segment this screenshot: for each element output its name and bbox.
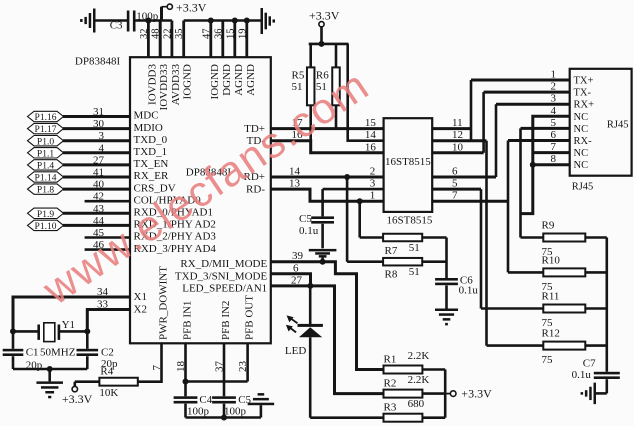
- svg-text:27: 27: [93, 154, 105, 166]
- wire chip pin 41: [63, 176, 130, 179]
- wire transformer pin12 to R12 drop: [432, 139, 486, 142]
- svg-text:14: 14: [289, 166, 301, 178]
- junction dot pin19 rail: [244, 18, 250, 24]
- svg-text:+3.3V: +3.3V: [309, 9, 340, 23]
- ground below crystal: [36, 369, 63, 398]
- wire RJ45 pin1 stub: [471, 79, 570, 82]
- wire top pin 15: [233, 21, 236, 58]
- svg-text:47: 47: [201, 29, 212, 40]
- power +3.3V (R4): [62, 386, 93, 406]
- svg-text:6: 6: [293, 262, 299, 274]
- crystal Y1: [13, 323, 87, 342]
- svg-text:+3.3V: +3.3V: [62, 392, 93, 406]
- wire RJ45 pin3 vertical link: [495, 104, 498, 177]
- svg-text:2: 2: [551, 81, 557, 93]
- resistor R4: [75, 378, 138, 387]
- svg-text:2: 2: [370, 166, 376, 178]
- wire chip pin 30: [63, 127, 130, 130]
- svg-text:RX+: RX+: [574, 100, 595, 111]
- svg-text:16ST8515: 16ST8515: [385, 156, 431, 168]
- wire chip pin 46: [85, 248, 130, 251]
- node port flag P1.8: [28, 184, 64, 196]
- svg-text:39: 39: [292, 250, 304, 262]
- junction dot pin15 rail: [232, 18, 238, 24]
- junction dot crystal right: [84, 328, 90, 334]
- junction dot pin18 row: [183, 379, 189, 385]
- node port flag P1.10: [28, 220, 64, 232]
- junction dot crystal left: [10, 328, 16, 334]
- svg-text:680: 680: [408, 398, 425, 410]
- svg-text:51: 51: [409, 242, 420, 254]
- svg-text:16: 16: [365, 141, 377, 153]
- svg-text:C2: C2: [101, 347, 114, 359]
- svg-text:100p: 100p: [224, 406, 247, 418]
- svg-text:1: 1: [370, 190, 376, 202]
- wire 12 drop to R12: [485, 141, 488, 346]
- wire pin27 LED_SPEED/AN1 net: [271, 286, 384, 394]
- svg-text:R7: R7: [385, 245, 398, 257]
- svg-text:5: 5: [551, 117, 557, 129]
- resistor R2: [384, 390, 446, 398]
- svg-text:IOVDD3: IOVDD3: [146, 64, 158, 105]
- svg-text:RJ45: RJ45: [607, 120, 629, 131]
- svg-text:R9: R9: [542, 220, 555, 232]
- svg-text:TXD_0: TXD_0: [134, 134, 168, 146]
- svg-text:LED_SPEED/AN1: LED_SPEED/AN1: [182, 282, 267, 294]
- wire transformer pin3 stub: [323, 188, 384, 191]
- ground GND top-right (sideways): [261, 8, 276, 34]
- capacitor C4: [174, 396, 198, 417]
- resistor R10: [508, 268, 607, 276]
- resistor R9: [521, 234, 607, 242]
- node port flag P1.17: [28, 123, 64, 135]
- svg-text:11: 11: [452, 117, 463, 129]
- wire 5 drop to R11: [480, 189, 483, 308]
- junction dot pin6/pin27/LED: [307, 283, 313, 289]
- svg-text:RJ45: RJ45: [572, 182, 594, 193]
- svg-text:32: 32: [139, 29, 150, 40]
- node port flag P1.1: [28, 148, 64, 160]
- wire pin7 PWR_DOWINT to R4: [138, 343, 162, 381]
- svg-text:10K: 10K: [99, 387, 118, 399]
- capacitor C5 (PFB): [212, 396, 236, 417]
- wire GND rail right segment: [184, 19, 261, 22]
- svg-text:AGND: AGND: [233, 64, 245, 96]
- wire C4/C5 ground bus: [186, 416, 261, 419]
- power +3.3V (R5/R6 top): [309, 9, 340, 27]
- svg-text:NC: NC: [574, 124, 589, 135]
- svg-text:P1.16: P1.16: [35, 113, 57, 123]
- svg-text:0.1u: 0.1u: [459, 285, 479, 297]
- resistor R8: [347, 258, 446, 266]
- svg-text:44: 44: [93, 215, 105, 227]
- junction dot RJ45 pin8 drop: [530, 162, 536, 168]
- svg-text:AGND: AGND: [245, 64, 257, 96]
- wire TD+ net (pin17 to transformer pin15): [271, 127, 384, 130]
- svg-text:R11: R11: [542, 291, 560, 303]
- wire center tap +3.3V to transformer pin14: [348, 44, 384, 141]
- svg-text:P1.8: P1.8: [37, 186, 54, 196]
- svg-text:51: 51: [292, 81, 303, 93]
- svg-text:R10: R10: [542, 254, 561, 266]
- svg-text:TX-: TX-: [574, 88, 592, 99]
- ground below C5: [309, 249, 337, 262]
- svg-text:PFB IN1: PFB IN1: [182, 301, 194, 340]
- wire chip pin 40: [63, 188, 130, 191]
- svg-text:C4: C4: [199, 394, 212, 406]
- svg-text:10: 10: [452, 141, 464, 153]
- wire transformer pin6 to RJ45 pin3 (RX+): [432, 176, 496, 179]
- wire RD+ net (pin14 to transformer pin2): [271, 176, 384, 179]
- svg-text:19: 19: [237, 29, 248, 40]
- wire chip pin 3: [63, 139, 130, 142]
- capacitor C5 (RX center tap): [311, 189, 334, 248]
- svg-text:15: 15: [365, 117, 377, 129]
- svg-text:RX_D/MII_MODE: RX_D/MII_MODE: [180, 258, 267, 270]
- svg-text:31: 31: [93, 106, 104, 118]
- wire R9-R12 common vertical to C7: [605, 238, 608, 372]
- wire pin37 PFBIN2: [223, 343, 226, 396]
- svg-text:DP83848I: DP83848I: [75, 56, 121, 68]
- svg-text:PWR_DOWINT: PWR_DOWINT: [158, 266, 170, 340]
- wire top pin 22: [170, 21, 173, 58]
- wire PFB junction row: [186, 380, 248, 383]
- wire TD- net (pin16 with jog to transformer pin16): [271, 141, 384, 153]
- capacitor C7: [594, 372, 620, 394]
- wire top pin 36: [221, 21, 224, 58]
- svg-text:48: 48: [151, 29, 162, 40]
- svg-text:12: 12: [452, 129, 463, 141]
- wire +3.3V stem to bar: [320, 27, 323, 44]
- svg-text:P1.14: P1.14: [35, 174, 57, 184]
- wire RJ45 pin2 stub: [484, 91, 570, 94]
- resistor R5: [307, 44, 315, 141]
- svg-text:6: 6: [551, 129, 557, 141]
- svg-text:13: 13: [289, 178, 301, 190]
- svg-text:0.1u: 0.1u: [299, 225, 319, 237]
- svg-text:NC: NC: [574, 160, 589, 171]
- wire chip pin 31: [63, 115, 130, 118]
- ground right of C7 (sideways): [581, 383, 596, 405]
- ground GND top-left (sideways): [80, 9, 95, 33]
- wire chip pin 43: [63, 212, 130, 215]
- svg-text:P1.1: P1.1: [37, 149, 54, 159]
- LED D1: [286, 286, 323, 418]
- junction dot C5 bus: [221, 415, 227, 421]
- svg-text:TXD_3/SNI_MODE: TXD_3/SNI_MODE: [175, 270, 268, 282]
- node port flag P1.0: [28, 136, 64, 148]
- wire transformer pin10 to RJ45 pin2 (TX-): [432, 151, 483, 154]
- svg-text:4: 4: [551, 105, 557, 117]
- wire chip pin 45: [85, 236, 130, 239]
- wire R1-R3 common vertical: [444, 370, 447, 418]
- svg-text:+3.3V: +3.3V: [176, 1, 207, 15]
- svg-text:3: 3: [551, 93, 557, 105]
- svg-text:PFB OUT: PFB OUT: [244, 295, 256, 340]
- junction dot RD+ / R8: [344, 174, 350, 180]
- resistor R6: [332, 44, 340, 129]
- svg-text:LED: LED: [285, 345, 306, 357]
- wire transformer pin5 to R11 drop: [432, 188, 481, 191]
- svg-text:RX-: RX-: [574, 136, 593, 147]
- svg-text:6: 6: [452, 166, 458, 178]
- svg-text:8: 8: [551, 153, 557, 165]
- svg-text:15: 15: [225, 29, 236, 40]
- power +3.3V tap (top-left): [162, 1, 207, 21]
- svg-text:2.2K: 2.2K: [408, 374, 430, 386]
- svg-text:IOGND: IOGND: [182, 64, 194, 99]
- svg-text:R3: R3: [384, 402, 397, 414]
- ground below C6: [435, 309, 458, 326]
- wire RJ45 pin7 stub: [533, 151, 570, 154]
- wire transformer pin7 to RJ45 pin6 (RX-): [432, 200, 508, 203]
- svg-text:1: 1: [551, 69, 557, 81]
- svg-text:MDIO: MDIO: [134, 122, 163, 134]
- wire RJ45 pin8 stub: [532, 163, 570, 166]
- wire VDD rail left segment: [136, 19, 172, 22]
- svg-text:C3: C3: [110, 20, 123, 32]
- svg-text:NC: NC: [574, 148, 589, 159]
- svg-text:22: 22: [162, 29, 173, 40]
- svg-text:3: 3: [370, 178, 376, 190]
- wire X2 net (pin33): [87, 310, 130, 332]
- junction dot RD- / R7: [357, 198, 363, 204]
- wire RD- net (pin13 jog to transformer pin1): [271, 189, 384, 201]
- svg-text:14: 14: [365, 129, 377, 141]
- svg-text:33: 33: [97, 299, 109, 311]
- capacitor C6: [435, 278, 458, 309]
- svg-text:R4: R4: [100, 366, 113, 378]
- IC U1 DP83848I ethernet PHY chip body: [130, 57, 271, 343]
- svg-text:TX_EN: TX_EN: [134, 158, 169, 170]
- resistor R7: [360, 234, 447, 242]
- svg-text:C7: C7: [583, 358, 596, 370]
- svg-text:DGND: DGND: [221, 64, 233, 96]
- wire top pin 47: [209, 21, 212, 58]
- power +3.3V (R1-R3): [445, 387, 492, 401]
- wire +3.3V bar: [309, 43, 349, 46]
- svg-text:7: 7: [452, 190, 458, 202]
- junction dot +3.3V bar: [319, 41, 325, 47]
- junction dot pin47 rail: [208, 18, 214, 24]
- svg-text:Y1: Y1: [62, 319, 75, 331]
- svg-text:R5: R5: [292, 70, 305, 82]
- junction dot C5 ground / pin39 wire: [320, 259, 326, 265]
- wire pin39 RX_D/MII_MODE net: [271, 262, 384, 370]
- svg-text:23: 23: [237, 361, 249, 373]
- wire RJ45 pin6 stub: [508, 139, 570, 142]
- svg-text:7: 7: [551, 141, 557, 153]
- wire transformer pin11 to RJ45 pin1 (TX+): [432, 127, 471, 130]
- svg-text:X2: X2: [134, 304, 147, 316]
- svg-text:50MHZ: 50MHZ: [40, 347, 76, 359]
- wire chip pin 44: [63, 224, 130, 227]
- svg-text:P1.17: P1.17: [35, 125, 57, 135]
- svg-text:75: 75: [542, 354, 554, 366]
- svg-text:37: 37: [214, 361, 226, 373]
- svg-text:P1.10: P1.10: [35, 222, 57, 232]
- svg-text:+3.3V: +3.3V: [461, 387, 492, 401]
- svg-text:RX_ER: RX_ER: [134, 170, 170, 182]
- svg-text:40: 40: [93, 179, 105, 191]
- wire RJ45 pin5 stub and drop to R9: [521, 127, 570, 130]
- svg-text:AVDD33: AVDD33: [170, 64, 182, 106]
- wire top pin 35: [182, 21, 185, 58]
- svg-text:R2: R2: [384, 378, 397, 390]
- svg-text:18: 18: [175, 361, 187, 373]
- capacitor C3: [127, 11, 136, 32]
- svg-text:100p: 100p: [187, 406, 210, 418]
- wire pin18 PFBIN1: [184, 343, 187, 396]
- capacitor C2: [77, 331, 99, 369]
- svg-text:7: 7: [151, 365, 163, 371]
- wire RJ45 pin6 vertical link and drop to R10: [507, 141, 510, 273]
- svg-text:2.2K: 2.2K: [408, 350, 430, 362]
- svg-text:4: 4: [99, 142, 105, 154]
- capacitor C1: [3, 331, 24, 369]
- node port flag P1.9: [28, 208, 64, 220]
- wire R7/R8 common to C6: [445, 238, 448, 279]
- watermark www.elecfans.com: [34, 61, 378, 315]
- svg-text:51: 51: [409, 266, 420, 278]
- svg-text:41: 41: [93, 167, 104, 179]
- svg-text:P1.9: P1.9: [37, 210, 54, 220]
- wire RJ45 pin2 vertical link: [482, 92, 485, 153]
- node port flag P1.4: [28, 160, 64, 172]
- wire top pin 48: [159, 21, 162, 58]
- svg-text:0.1u: 0.1u: [572, 369, 592, 381]
- svg-text:TX+: TX+: [574, 76, 594, 87]
- wire chip pin 4: [63, 151, 130, 154]
- svg-text:35: 35: [174, 29, 185, 40]
- wire top pin 32: [147, 21, 150, 58]
- svg-text:43: 43: [93, 203, 105, 215]
- wire RJ45 pin1 vertical link: [470, 80, 473, 141]
- resistor R1: [384, 366, 446, 374]
- svg-text:IOVDD33: IOVDD33: [158, 64, 170, 111]
- svg-text:R1: R1: [384, 354, 397, 366]
- junction dot pin32 rail: [145, 18, 151, 24]
- connector J1 RJ45 body: [570, 69, 632, 176]
- svg-text:30: 30: [93, 118, 105, 130]
- resistor R11: [481, 305, 607, 313]
- svg-text:P1.0: P1.0: [37, 137, 54, 147]
- resistor R12: [487, 342, 607, 350]
- svg-text:27: 27: [291, 274, 303, 286]
- node port flag P1.14: [28, 172, 64, 184]
- svg-text:R8: R8: [385, 269, 398, 281]
- wire chip pin 42: [85, 200, 130, 203]
- wire pin6 TXD_3/SNI_MODE net: [271, 274, 311, 286]
- svg-text:TXD_1: TXD_1: [134, 146, 168, 158]
- svg-text:16ST8515: 16ST8515: [387, 215, 433, 227]
- svg-text:P1.4: P1.4: [37, 162, 54, 172]
- wire RJ45 pin4 stub and drop: [521, 116, 570, 213]
- wire pin23 PFBOUT: [246, 343, 249, 381]
- wire top pin 19: [245, 21, 248, 58]
- transformer T1 16ST8515 body: [384, 118, 433, 212]
- wire ground to C3: [96, 19, 128, 22]
- ground above bus (inverted): [248, 393, 275, 417]
- node port flag P1.16: [28, 111, 64, 123]
- wire crystal ground bus: [13, 368, 87, 371]
- svg-text:R12: R12: [542, 328, 560, 340]
- svg-text:X1: X1: [134, 291, 147, 303]
- svg-text:36: 36: [213, 29, 224, 40]
- svg-text:IOGND: IOGND: [209, 64, 221, 99]
- wire chip pin 27: [63, 163, 130, 166]
- svg-text:NC: NC: [574, 112, 589, 123]
- svg-text:C5: C5: [299, 213, 312, 225]
- svg-text:MDC: MDC: [134, 110, 159, 122]
- junction dot ground bus: [47, 366, 53, 372]
- resistor R3: [310, 414, 445, 422]
- svg-text:5: 5: [452, 178, 458, 190]
- svg-text:C1: C1: [26, 347, 39, 359]
- wire RJ45 pin3 stub: [496, 103, 570, 106]
- svg-text:3: 3: [99, 130, 105, 142]
- svg-text:PFB IN2: PFB IN2: [220, 301, 232, 340]
- svg-text:42: 42: [93, 191, 104, 203]
- wire X1 net (pin34): [13, 297, 130, 331]
